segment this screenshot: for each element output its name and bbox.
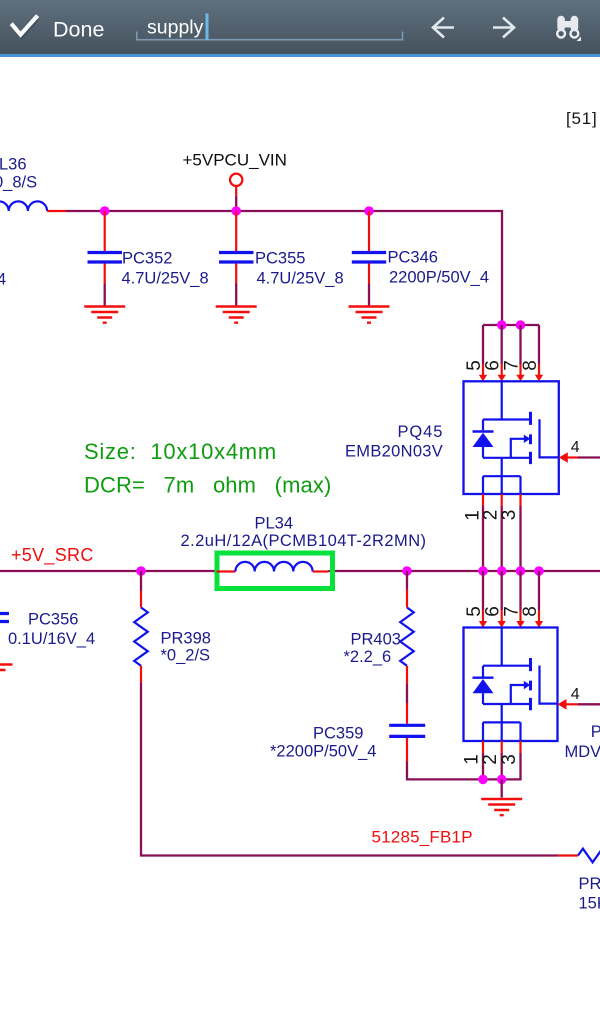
- PQ45 pin 1: [482, 494, 484, 506]
- svg-text:PL34: PL34: [255, 515, 294, 533]
- mosfet PQ46 channel bars: [529, 658, 532, 710]
- wire PQ45 pin1 to +5V_SRC: [482, 506, 484, 571]
- mosfet PQ45 gate plate and gate lead: [540, 419, 559, 457]
- wire to PQ45 pin 5: [482, 325, 484, 364]
- svg-text:2.2uH/12A(PCMB104T-2R2MN): 2.2uH/12A(PCMB104T-2R2MN): [181, 532, 427, 550]
- svg-text:3: 3: [499, 510, 520, 521]
- top action bar: [0, 0, 600, 54]
- ground under PQ46: [481, 799, 522, 815]
- svg-text:EMB20N03V: EMB20N03V: [345, 443, 443, 461]
- wire to PQ45 pin 7: [519, 325, 521, 364]
- body diode of PQ45: [473, 430, 494, 432]
- svg-text:PC352: PC352: [122, 250, 172, 268]
- wire +5V_SRC right segment: [329, 570, 600, 572]
- resistor PR403 top pin: [406, 589, 408, 608]
- wire +5V_SRC to PQ46 pin 6: [501, 571, 503, 610]
- wire PQ45 pin2 to +5V_SRC: [501, 506, 503, 571]
- mosfet PQ45 internal drain wire: [483, 381, 531, 430]
- wire gate PQ46 to right edge: [578, 703, 600, 705]
- PQ45 pin 2: [501, 494, 503, 506]
- svg-text:51285_FB1P: 51285_FB1P: [372, 828, 473, 847]
- svg-text:Size: 10x10x4mm: Size: 10x10x4mm: [84, 439, 277, 464]
- svg-text:Done: Done: [53, 18, 104, 42]
- capacitor PC352 bottom pin: [104, 264, 106, 284]
- wire PC352 to ground: [104, 284, 106, 306]
- junction dot ground node b: [497, 775, 507, 785]
- wire gate PQ45 to right edge: [578, 456, 600, 458]
- PQ45 pin 4 lead: [567, 456, 578, 458]
- resistor PR403 zigzag: [400, 608, 414, 666]
- inductor L36 coil: [0, 201, 47, 211]
- junction dot at PC346: [364, 206, 374, 216]
- mosfet PQ46 internal drain wire: [483, 628, 531, 677]
- wire PQ45 pin3 to +5V_SRC: [519, 506, 521, 571]
- mosfet PQ45 source network: [483, 458, 521, 494]
- PQ45 pin 6: [501, 364, 503, 376]
- wire to PQ45 pin 6: [501, 325, 503, 364]
- wire ground node to ground: [501, 779, 503, 797]
- svg-text:4: 4: [0, 271, 6, 289]
- svg-text:2200P/50V_4: 2200P/50V_4: [389, 269, 489, 287]
- junction dot bus pin7: [516, 566, 526, 576]
- wire drain header bus of PQ45: [483, 324, 539, 326]
- svg-text:15K: 15K: [579, 895, 600, 913]
- svg-text:PC356: PC356: [28, 611, 78, 629]
- wire PQ46 pin3 to ground node: [483, 753, 521, 779]
- wire +5V_SRC to PQ46 pin 7: [519, 571, 521, 610]
- resistor PR398 top pin: [140, 591, 142, 608]
- capacitor PC355 plates: [219, 253, 254, 263]
- PQ46 pin 2: [501, 741, 503, 753]
- wire to PQ45 pin 8: [538, 325, 540, 364]
- svg-text:PR403: PR403: [351, 631, 401, 649]
- ground under PC346: [349, 307, 390, 323]
- ground under PC352: [84, 307, 125, 323]
- search text field underline: [137, 32, 403, 40]
- svg-text:MDV3604: MDV3604: [565, 743, 600, 761]
- svg-text:4: 4: [571, 439, 580, 456]
- junction dot at PR403: [402, 566, 412, 576]
- svg-text:L36: L36: [0, 156, 27, 174]
- svg-text:*2200P/50V_4: *2200P/50V_4: [270, 743, 376, 761]
- svg-text:PQ45: PQ45: [398, 423, 444, 441]
- capacitor PC356 plates (edge clipped): [0, 614, 9, 622]
- junction dot at PC355: [231, 206, 241, 216]
- junction dot at PC352: [100, 206, 110, 216]
- PQ46 pin 1: [482, 741, 484, 753]
- svg-text:+5V_SRC: +5V_SRC: [11, 545, 94, 566]
- svg-text:DCR= 7m ohm (max): DCR= 7m ohm (max): [84, 473, 331, 498]
- svg-text:8: 8: [520, 606, 541, 617]
- resistor PR415 zigzag (clipped): [578, 849, 600, 863]
- capacitor PC359 bottom pin: [406, 738, 408, 762]
- svg-text:[51]: [51]: [566, 109, 598, 128]
- PQ46 pin 8: [538, 610, 540, 622]
- svg-text:+5VPCU_VIN: +5VPCU_VIN: [183, 151, 287, 170]
- wire PR403 to PC359: [406, 684, 408, 703]
- wire PC359 to ground node: [407, 762, 483, 780]
- PQ46 pin 7: [519, 610, 521, 622]
- wire +5V_SRC left segment: [0, 570, 217, 572]
- action bar bottom accent line: [0, 54, 600, 57]
- capacitor PC352 top pin: [104, 211, 106, 251]
- svg-text:*0_2/S: *0_2/S: [161, 647, 211, 665]
- wire +5VPCU_VIN horizontal bus and drop to PQ45: [66, 211, 502, 325]
- PQ45 pin 5: [482, 364, 484, 376]
- power port pin wire: [235, 186, 237, 197]
- junction dot bus pin8: [534, 566, 544, 576]
- inductor L36 right pin: [47, 210, 66, 212]
- svg-text:4: 4: [571, 686, 580, 703]
- wire PR398 to 51285_FB1P: [141, 683, 558, 856]
- PQ45 pin 4 arrow: [559, 452, 568, 463]
- svg-text:0_8/S: 0_8/S: [0, 174, 37, 192]
- svg-text:PC359: PC359: [313, 725, 363, 743]
- junction dot bus pin5: [478, 566, 488, 576]
- inductor PL34 coil: [235, 562, 312, 572]
- resistor PR403 bottom pin: [406, 666, 408, 684]
- svg-text:4.7U/25V_8: 4.7U/25V_8: [122, 270, 209, 288]
- capacitor PC346 plates: [352, 253, 386, 263]
- svg-text:supply: supply: [147, 17, 204, 39]
- PQ46 pin 4 lead: [566, 703, 578, 705]
- mosfet PQ46 gate plate and gate lead: [540, 666, 558, 704]
- svg-text:PR398: PR398: [161, 630, 211, 648]
- wire PQ46 pin1 to ground node: [482, 753, 484, 779]
- junction dot bus pin6: [497, 566, 507, 576]
- back arrow: [433, 18, 454, 38]
- wire +5V_SRC to PR403: [406, 571, 408, 589]
- capacitor PC359 plates: [389, 725, 425, 736]
- junction dot ground node a: [478, 775, 488, 785]
- capacitor PC346 top pin: [368, 211, 370, 251]
- inductor PL34 right pin: [313, 570, 329, 572]
- mosfet PQ45 channel bars: [529, 412, 532, 464]
- ground under PC356 (edge clipped): [0, 665, 13, 676]
- PQ46 pin 4 arrow: [558, 699, 567, 710]
- svg-text:PC355: PC355: [255, 250, 305, 268]
- svg-text:PQ46: PQ46: [591, 723, 600, 741]
- wire PC346 to ground: [368, 284, 370, 306]
- mosfet PQ45 body box: [464, 381, 559, 494]
- mosfet PQ45 body arrow: [511, 439, 525, 458]
- junction dot drain bus b: [516, 320, 526, 330]
- PQ45 pin 8: [538, 364, 540, 376]
- wire +5V_SRC to PR398: [140, 571, 142, 591]
- svg-text:3: 3: [499, 754, 520, 765]
- done checkmark icon: [14, 19, 38, 36]
- wire +5V_SRC to PQ46 pin 8: [538, 571, 540, 610]
- capacitor PC359 top pin: [406, 703, 408, 724]
- resistor PR415 left pin: [558, 854, 578, 856]
- wire PC355 to ground: [235, 284, 237, 306]
- capacitor PC352 plates: [88, 253, 123, 263]
- mosfet PQ46 source network: [483, 704, 521, 741]
- wire port to bus: [235, 197, 237, 212]
- wire +5V_SRC to PQ46 pin 5: [482, 571, 484, 610]
- junction dot drain bus a: [497, 320, 507, 330]
- mosfet PQ46 body arrow: [511, 685, 525, 704]
- green highlight box around PL34: [217, 553, 333, 589]
- PQ45 pin 3: [519, 494, 521, 506]
- inductor PL34 left pin: [217, 570, 236, 572]
- capacitor PC346 bottom pin: [368, 264, 370, 284]
- PQ46 pin 6: [501, 610, 503, 622]
- resistor PR398 bottom pin: [140, 666, 142, 683]
- PQ45 pin 7: [519, 364, 521, 376]
- svg-text:PR415: PR415: [579, 875, 600, 893]
- ground under PC355: [216, 307, 257, 323]
- svg-text:*2.2_6: *2.2_6: [344, 648, 392, 666]
- wire PQ46 pin2 to ground node: [501, 753, 503, 779]
- junction dot at PR398: [136, 566, 146, 576]
- find (binoculars) icon: [557, 16, 581, 41]
- PQ46 pin 5: [482, 610, 484, 622]
- text cursor: [206, 14, 209, 41]
- body diode of PQ46: [473, 677, 494, 679]
- capacitor PC355 bottom pin: [235, 264, 237, 284]
- svg-text:4.7U/25V_8: 4.7U/25V_8: [257, 270, 344, 288]
- PQ46 pin 3: [519, 741, 521, 753]
- svg-text:0.1U/16V_4: 0.1U/16V_4: [8, 630, 95, 648]
- mosfet PQ46 body box: [464, 628, 558, 742]
- svg-text:PC346: PC346: [388, 249, 438, 267]
- resistor PR398 zigzag: [134, 608, 148, 666]
- svg-text:8: 8: [520, 360, 541, 371]
- forward arrow: [493, 18, 514, 38]
- capacitor PC355 top pin: [235, 211, 237, 251]
- power port circle: [230, 174, 242, 186]
